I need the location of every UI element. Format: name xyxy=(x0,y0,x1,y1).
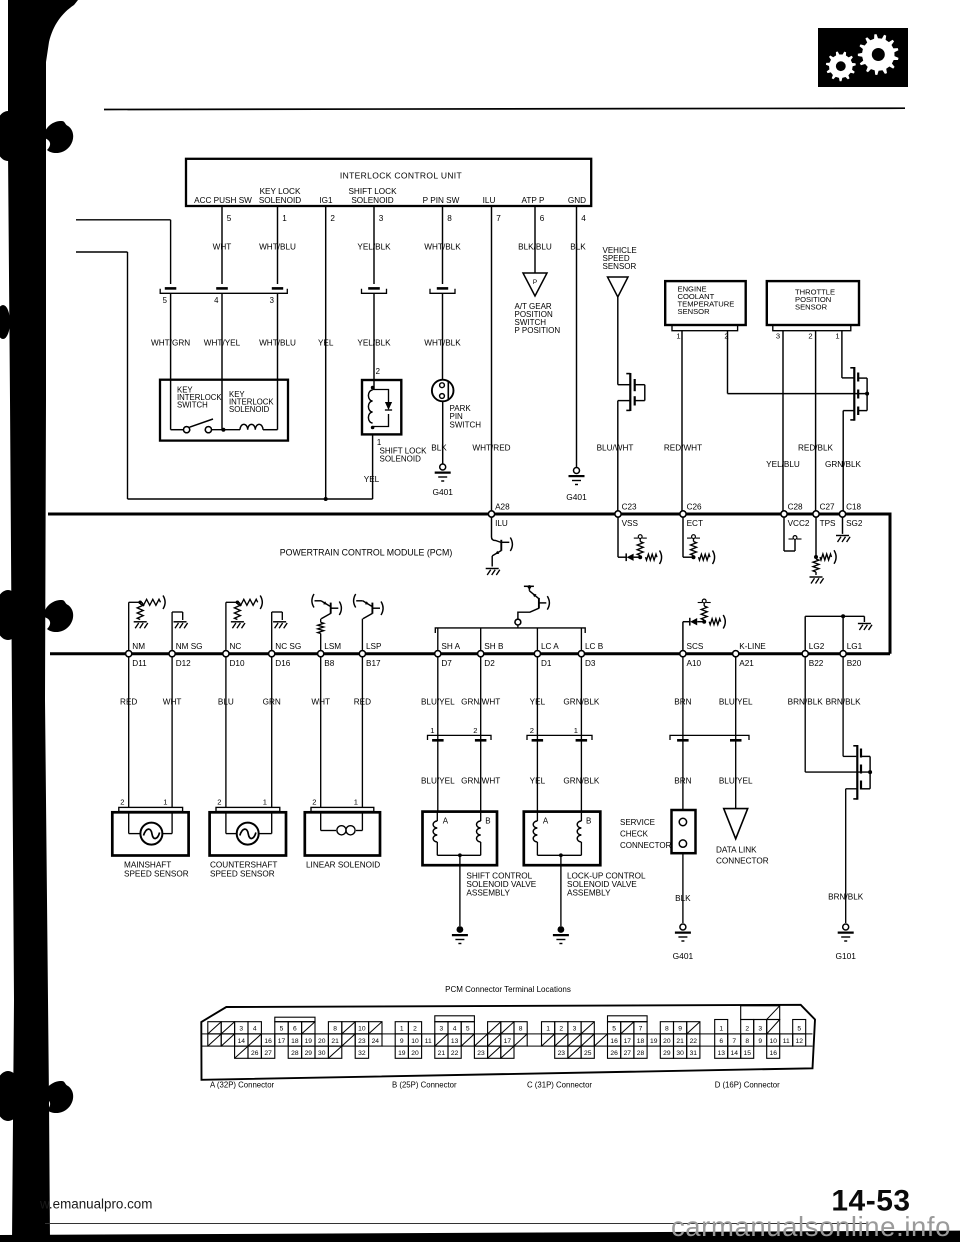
svg-text:1: 1 xyxy=(400,1026,404,1033)
NM internal network xyxy=(128,602,130,653)
svg-text:23: 23 xyxy=(358,1038,366,1045)
wire LG1 to driver xyxy=(842,654,844,757)
shift lock solenoid diode branch xyxy=(373,390,389,403)
wire ILU pin7 WHT/RED xyxy=(491,206,493,514)
node LC A / D1 xyxy=(534,651,540,657)
svg-text:GRN/BLK: GRN/BLK xyxy=(825,460,861,469)
svg-text:18: 18 xyxy=(291,1038,299,1045)
wire WHT/BLU lower xyxy=(277,293,279,379)
svg-text:13: 13 xyxy=(717,1050,725,1057)
svg-text:CONNECTOR: CONNECTOR xyxy=(716,857,769,866)
key interlock switch lever xyxy=(190,419,214,427)
svg-text:SENSOR: SENSOR xyxy=(678,307,711,316)
svg-text:COUNTERSHAFT: COUNTERSHAFT xyxy=(210,861,277,870)
svg-text:G401: G401 xyxy=(673,951,694,961)
svg-text:6: 6 xyxy=(540,214,545,223)
svg-text:26: 26 xyxy=(610,1050,618,1057)
svg-text:PCM Connector Terminal Locatio: PCM Connector Terminal Locations xyxy=(445,985,571,994)
svg-text:5: 5 xyxy=(227,214,232,223)
svg-text:D10: D10 xyxy=(230,659,245,668)
connector B keyway lid xyxy=(435,1016,475,1022)
svg-text:LSM: LSM xyxy=(324,642,341,651)
ECT pull-up network xyxy=(682,514,684,557)
lock-up control solenoid valve assembly box xyxy=(524,812,601,866)
svg-text:1: 1 xyxy=(263,798,267,807)
svg-text:5: 5 xyxy=(466,1026,470,1033)
svg-text:BLU/YEL: BLU/YEL xyxy=(421,777,455,786)
ILU transistor xyxy=(491,514,493,537)
svg-text:D (16P) Connector: D (16P) Connector xyxy=(715,1081,780,1090)
lock-up common wire xyxy=(537,854,581,856)
binding ring 1 xyxy=(0,111,22,161)
wire SH B stub xyxy=(480,628,482,654)
NC internal network xyxy=(225,602,227,653)
svg-text:6: 6 xyxy=(719,1038,723,1045)
svg-text:4: 4 xyxy=(214,296,219,305)
svg-text:10: 10 xyxy=(358,1026,366,1033)
svg-text:ECT: ECT xyxy=(687,519,703,528)
svg-text:23: 23 xyxy=(477,1050,485,1057)
svg-text:B (25P) Connector: B (25P) Connector xyxy=(392,1081,457,1090)
header rule xyxy=(104,108,905,109)
svg-text:5: 5 xyxy=(612,1026,616,1033)
svg-text:NM: NM xyxy=(132,642,145,651)
svg-text:27: 27 xyxy=(624,1050,632,1057)
wire BLK/BLU pin6 xyxy=(534,206,536,273)
interlock control unit box xyxy=(186,159,591,206)
svg-text:D1: D1 xyxy=(541,659,552,668)
svg-text:D3: D3 xyxy=(585,659,596,668)
wire BLK pin4 xyxy=(576,206,578,467)
node NC SG / D16 xyxy=(269,651,275,657)
connector YEL/BLK single xyxy=(362,289,387,294)
svg-text:ATP P: ATP P xyxy=(522,196,545,205)
svg-text:C26: C26 xyxy=(687,503,702,512)
ground NM SG xyxy=(174,621,187,623)
svg-text:8: 8 xyxy=(333,1026,337,1033)
svg-text:7: 7 xyxy=(732,1038,736,1045)
svg-text:TPS: TPS xyxy=(820,519,836,528)
wire NC down xyxy=(225,654,227,808)
key interlock unit box xyxy=(160,380,288,441)
svg-text:B8: B8 xyxy=(324,659,334,668)
svg-text:D11: D11 xyxy=(132,659,147,668)
LSP driver transistor xyxy=(354,594,356,608)
wire switch to solenoid xyxy=(212,429,240,431)
wire shift lock solenoid to YEL xyxy=(372,434,374,499)
connector C keyway lid xyxy=(608,1016,648,1022)
svg-text:8: 8 xyxy=(745,1038,749,1045)
ground LG xyxy=(858,623,871,625)
LG rail to ground xyxy=(804,616,806,653)
svg-text:A (32P) Connector: A (32P) Connector xyxy=(210,1081,275,1090)
svg-text:SHIFT LOCK: SHIFT LOCK xyxy=(348,187,397,196)
node LC B / D3 xyxy=(578,651,584,657)
svg-text:3: 3 xyxy=(776,332,780,341)
node A28 / ILU xyxy=(488,511,494,517)
wire BLK service check xyxy=(682,853,684,923)
svg-text:SH B: SH B xyxy=(484,642,504,651)
ground lock-up assembly xyxy=(558,926,565,933)
svg-text:2: 2 xyxy=(559,1026,563,1033)
svg-text:A10: A10 xyxy=(687,659,702,668)
connector A keyway lid xyxy=(275,1017,315,1022)
ground NC xyxy=(231,621,244,623)
ground NC SG xyxy=(273,621,286,623)
svg-text:24: 24 xyxy=(372,1038,380,1045)
svg-text:3: 3 xyxy=(573,1026,577,1033)
svg-text:ASSEMBLY: ASSEMBLY xyxy=(466,889,510,898)
connector SH A/SH B xyxy=(428,735,492,740)
svg-text:C28: C28 xyxy=(788,503,803,512)
svg-text:2: 2 xyxy=(217,798,221,807)
svg-text:28: 28 xyxy=(291,1050,299,1057)
svg-text:10: 10 xyxy=(411,1038,419,1045)
NM SG ground stub xyxy=(171,612,173,654)
svg-text:YEL/BLU: YEL/BLU xyxy=(766,460,800,469)
shift control solenoid coil A xyxy=(436,812,438,821)
svg-text:SOLENOID: SOLENOID xyxy=(259,196,301,205)
svg-text:6: 6 xyxy=(293,1026,297,1033)
svg-text:SERVICE: SERVICE xyxy=(620,818,655,827)
svg-text:20: 20 xyxy=(411,1050,419,1057)
svg-text:IG1: IG1 xyxy=(319,196,333,205)
wire WHT/BLK lower xyxy=(442,293,444,380)
svg-text:SWITCH: SWITCH xyxy=(450,420,482,429)
wire WHT/BLK pin8 xyxy=(442,206,444,284)
wire WHT/YEL into switch xyxy=(221,380,223,430)
svg-text:10: 10 xyxy=(769,1038,777,1045)
node K-LINE / A21 xyxy=(733,651,739,657)
svg-text:A28: A28 xyxy=(495,503,510,512)
svg-text:2: 2 xyxy=(312,798,316,807)
connector group links xyxy=(202,1033,208,1035)
svg-text:CHECK: CHECK xyxy=(620,829,649,838)
node NM SG / D12 xyxy=(169,651,175,657)
svg-text:BLU/YEL: BLU/YEL xyxy=(719,777,753,786)
ground G101 xyxy=(843,924,849,930)
svg-text:2: 2 xyxy=(413,1026,417,1033)
wire RED/BLK TPS pin2 xyxy=(815,331,817,514)
svg-text:21: 21 xyxy=(438,1050,446,1057)
svg-text:w.emanualpro.com: w.emanualpro.com xyxy=(39,1197,152,1212)
connector 5-4-3 xyxy=(160,289,287,294)
connector D keyway lid xyxy=(741,1006,780,1020)
node SCS / A10 xyxy=(680,651,686,657)
TPS divider network xyxy=(815,514,817,557)
svg-text:1: 1 xyxy=(430,726,434,735)
svg-text:NC SG: NC SG xyxy=(275,642,301,651)
svg-text:19: 19 xyxy=(305,1038,313,1045)
svg-text:14: 14 xyxy=(730,1050,738,1057)
wire SCS down xyxy=(682,654,684,810)
wire NM down xyxy=(128,654,130,808)
svg-text:WHT/GRN: WHT/GRN xyxy=(151,339,190,348)
svg-text:WHT/RED: WHT/RED xyxy=(472,444,510,453)
svg-text:21: 21 xyxy=(676,1038,684,1045)
connector B cells xyxy=(395,1022,408,1034)
ground ILU xyxy=(486,568,499,570)
svg-text:2: 2 xyxy=(808,332,812,341)
connector SCS/K-LINE xyxy=(670,735,749,740)
service check connector box xyxy=(672,810,696,853)
svg-text:20: 20 xyxy=(663,1038,671,1045)
wire LSP down xyxy=(361,654,363,808)
svg-text:23: 23 xyxy=(558,1050,566,1057)
SH common rail xyxy=(435,628,585,633)
junction YEL / IG1 xyxy=(324,497,328,501)
key interlock switch contacts xyxy=(184,427,190,433)
svg-text:8: 8 xyxy=(447,214,452,223)
svg-text:3: 3 xyxy=(379,214,384,223)
svg-text:C (31P) Connector: C (31P) Connector xyxy=(527,1081,592,1090)
connector outline xyxy=(201,1005,815,1080)
wire park pin switch to ground xyxy=(442,401,444,464)
wire GRN/BLK TPS driver out xyxy=(843,410,854,412)
wire K-LINE down xyxy=(735,654,737,809)
svg-text:28: 28 xyxy=(637,1050,645,1057)
svg-text:1: 1 xyxy=(574,726,578,735)
svg-text:30: 30 xyxy=(676,1050,684,1057)
SH rail node circle xyxy=(515,619,521,625)
svg-text:ILU: ILU xyxy=(495,519,508,528)
svg-text:2: 2 xyxy=(530,726,534,735)
shift control solenoid coil B xyxy=(480,812,482,821)
wire LC A down xyxy=(536,654,538,812)
wire BRN/BLK driver out xyxy=(846,788,858,790)
svg-text:32: 32 xyxy=(358,1050,366,1057)
svg-text:5: 5 xyxy=(163,296,168,305)
svg-text:WHT/YEL: WHT/YEL xyxy=(204,339,241,348)
ground G401 ICU GND xyxy=(574,468,580,474)
park pin switch xyxy=(432,380,454,402)
svg-text:SH A: SH A xyxy=(441,642,460,651)
ground NM xyxy=(134,621,147,623)
connector LC A/LC B xyxy=(527,735,592,740)
wire WHT/GRN xyxy=(170,293,172,379)
svg-text:25: 25 xyxy=(584,1050,592,1057)
svg-text:2: 2 xyxy=(120,798,124,807)
svg-text:SOLENOID: SOLENOID xyxy=(229,405,270,414)
ground G401 service check xyxy=(680,924,686,930)
junction key interlock xyxy=(221,428,225,432)
svg-text:WHT/BLU: WHT/BLU xyxy=(259,339,296,348)
VSS pull-up network xyxy=(617,514,619,557)
wire LG2 gate xyxy=(804,654,806,772)
key interlock solenoid coil xyxy=(240,424,263,429)
svg-text:INTERLOCK CONTROL UNIT: INTERLOCK CONTROL UNIT xyxy=(340,171,462,181)
wire YEL/BLK into solenoid xyxy=(373,368,375,390)
svg-text:B17: B17 xyxy=(366,659,381,668)
binding ring 3 xyxy=(0,1071,22,1121)
svg-text:SPEED SENSOR: SPEED SENSOR xyxy=(124,870,189,879)
svg-text:LINEAR SOLENOID: LINEAR SOLENOID xyxy=(306,861,380,870)
node SH B / D2 xyxy=(478,651,484,657)
svg-text:P POSITION: P POSITION xyxy=(515,326,561,335)
footer rule xyxy=(45,1223,868,1225)
svg-text:7: 7 xyxy=(639,1026,643,1033)
svg-text:WHT/BLK: WHT/BLK xyxy=(424,339,461,348)
wire SH A down xyxy=(437,654,439,812)
svg-text:D16: D16 xyxy=(275,659,290,668)
shift control common wire xyxy=(437,854,480,856)
svg-text:29: 29 xyxy=(305,1050,313,1057)
svg-text:4: 4 xyxy=(453,1026,457,1033)
PCM lower bus xyxy=(50,652,890,655)
svg-text:K-LINE: K-LINE xyxy=(739,642,766,651)
svg-text:BLK: BLK xyxy=(431,444,447,453)
svg-text:19: 19 xyxy=(650,1038,658,1045)
svg-text:G101: G101 xyxy=(835,951,856,961)
svg-text:3: 3 xyxy=(239,1026,243,1033)
svg-text:1: 1 xyxy=(676,332,680,341)
svg-text:1: 1 xyxy=(282,214,287,223)
svg-text:17: 17 xyxy=(278,1038,286,1045)
connector D cells xyxy=(715,1020,728,1034)
svg-text:B: B xyxy=(586,817,591,826)
svg-text:carmanualsonline.info: carmanualsonline.info xyxy=(671,1211,951,1242)
svg-text:SPEED SENSOR: SPEED SENSOR xyxy=(210,870,275,879)
svg-text:D12: D12 xyxy=(176,659,191,668)
svg-text:16: 16 xyxy=(610,1038,618,1045)
svg-text:VCC2: VCC2 xyxy=(788,519,810,528)
svg-text:BLU/WHT: BLU/WHT xyxy=(597,444,634,453)
TPS driver transistor xyxy=(853,367,855,421)
lock-up solenoid coil B xyxy=(580,812,582,821)
wire BLU/WHT xyxy=(617,401,619,514)
svg-text:POWERTRAIN CONTROL MODULE (PCM: POWERTRAIN CONTROL MODULE (PCM) xyxy=(280,548,453,558)
svg-text:9: 9 xyxy=(758,1038,762,1045)
wire VSS to driver xyxy=(617,297,619,385)
svg-text:GRN/BLK: GRN/BLK xyxy=(563,777,599,786)
svg-text:1: 1 xyxy=(546,1026,550,1033)
svg-text:ILU: ILU xyxy=(483,196,496,205)
svg-text:LC A: LC A xyxy=(541,642,559,651)
svg-text:12: 12 xyxy=(795,1038,803,1045)
shift lock solenoid coil xyxy=(371,386,375,390)
svg-text:A: A xyxy=(443,817,449,826)
VSS driver transistor xyxy=(618,384,630,386)
svg-text:16: 16 xyxy=(264,1038,272,1045)
node SH A / D7 xyxy=(435,651,441,657)
junction ECT/TPS driver xyxy=(865,392,869,396)
svg-text:1: 1 xyxy=(354,798,358,807)
svg-text:11: 11 xyxy=(783,1038,790,1045)
svg-text:BRN: BRN xyxy=(674,777,691,786)
node LSP / B17 xyxy=(359,651,365,657)
svg-text:YEL: YEL xyxy=(364,475,380,484)
svg-text:YEL: YEL xyxy=(318,339,334,348)
wire LC A stub xyxy=(536,628,538,654)
ground SG2 xyxy=(842,514,844,534)
svg-text:NM SG: NM SG xyxy=(176,642,203,651)
svg-text:27: 27 xyxy=(264,1050,272,1057)
svg-text:SOLENOID: SOLENOID xyxy=(351,196,393,205)
svg-text:YEL/BLK: YEL/BLK xyxy=(357,339,391,348)
vehicle speed sensor triangle xyxy=(608,277,629,297)
svg-text:VSS: VSS xyxy=(622,519,639,528)
svg-text:29: 29 xyxy=(663,1050,671,1057)
svg-text:SWITCH: SWITCH xyxy=(177,401,208,410)
node LSM / B8 xyxy=(318,651,324,657)
wire YEL/BLU TPS pin3 xyxy=(782,331,784,514)
node LG1 / B20 xyxy=(840,651,846,657)
svg-text:1: 1 xyxy=(719,1026,723,1033)
svg-text:2: 2 xyxy=(330,214,335,223)
node C18 / SG2 xyxy=(839,511,845,517)
svg-text:B22: B22 xyxy=(809,659,824,668)
svg-text:22: 22 xyxy=(690,1038,698,1045)
node circles repaint xyxy=(184,427,190,433)
SCS internal network xyxy=(682,622,684,654)
svg-text:16: 16 xyxy=(769,1050,777,1057)
LG driver transistor xyxy=(856,745,858,800)
svg-text:MAINSHAFT: MAINSHAFT xyxy=(124,861,171,870)
svg-text:21: 21 xyxy=(331,1038,339,1045)
svg-text:19: 19 xyxy=(398,1050,406,1057)
binding spine bar xyxy=(8,0,50,1242)
svg-text:SCS: SCS xyxy=(687,642,704,651)
ground TPS xyxy=(810,576,823,578)
svg-text:P: P xyxy=(533,279,538,286)
svg-text:17: 17 xyxy=(504,1038,512,1045)
node C26 / ECT xyxy=(680,511,686,517)
svg-text:17: 17 xyxy=(624,1038,632,1045)
svg-text:1: 1 xyxy=(835,332,839,341)
wire feed lower xyxy=(76,251,128,253)
wire YEL/BLK pin3 xyxy=(373,206,375,284)
svg-text:D2: D2 xyxy=(484,659,495,668)
wire ECT pin2 to TP driver xyxy=(727,331,729,394)
lock-up solenoid coil A xyxy=(536,812,538,821)
wire inside key interlock left xyxy=(170,380,172,430)
svg-text:8: 8 xyxy=(665,1026,669,1033)
binding ring 2 xyxy=(0,590,22,640)
wire YEL pin2 xyxy=(325,206,327,499)
wire RED/WHT ECT pin1 xyxy=(681,331,683,514)
wire NC SG down xyxy=(271,654,273,808)
PCM right bus vertical xyxy=(889,513,892,654)
svg-text:GND: GND xyxy=(568,196,586,205)
svg-text:NC: NC xyxy=(230,642,242,651)
svg-text:20: 20 xyxy=(318,1038,326,1045)
VCC2 supply stub xyxy=(783,514,785,551)
svg-text:13: 13 xyxy=(451,1038,459,1045)
svg-text:30: 30 xyxy=(318,1050,326,1057)
throttle position sensor box xyxy=(767,281,859,325)
wire WHT/BLU pin1 xyxy=(277,206,279,284)
svg-text:3: 3 xyxy=(440,1026,444,1033)
node LG2 / B22 xyxy=(802,651,808,657)
svg-text:SG2: SG2 xyxy=(846,519,863,528)
svg-text:CONNECTOR: CONNECTOR xyxy=(620,841,672,850)
svg-text:D7: D7 xyxy=(441,659,452,668)
svg-text:5: 5 xyxy=(280,1026,284,1033)
svg-text:ASSEMBLY: ASSEMBLY xyxy=(567,889,611,898)
svg-text:RED/BLK: RED/BLK xyxy=(798,444,834,453)
svg-text:A: A xyxy=(543,817,549,826)
svg-text:RED/WHT: RED/WHT xyxy=(664,444,702,453)
wire LC B down xyxy=(580,654,582,812)
svg-text:KEY LOCK: KEY LOCK xyxy=(260,187,301,196)
node C27 / TPS xyxy=(813,511,819,517)
SH driver transistor xyxy=(524,585,534,587)
svg-text:BLK: BLK xyxy=(570,243,586,252)
A/T gear position switch P triangle xyxy=(523,273,547,296)
svg-text:B20: B20 xyxy=(847,659,862,668)
svg-text:2: 2 xyxy=(745,1026,749,1033)
connector WHT/BLK single xyxy=(430,289,455,294)
